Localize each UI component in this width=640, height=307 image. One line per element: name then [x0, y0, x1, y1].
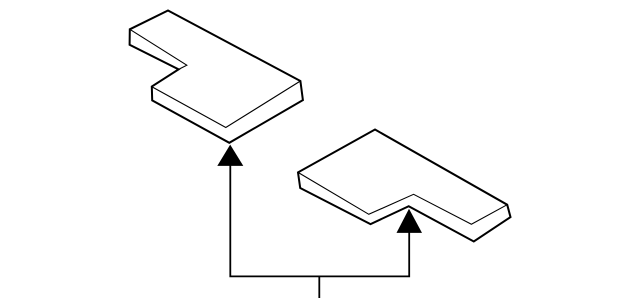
insulator pad left top-face front edge [152, 81, 300, 128]
arrowhead pointing to left pad [217, 145, 243, 166]
insulator pad right (part outline) [298, 130, 511, 242]
insulator pad left top-face notch edge [130, 29, 187, 69]
arrowhead pointing to right pad [397, 209, 423, 233]
insulator pad right top-face front edge with notch [298, 172, 507, 224]
insulator pad left (part outline) [130, 11, 303, 143]
callout bracket line [230, 165, 409, 276]
leader tick to part number [318, 276, 320, 298]
